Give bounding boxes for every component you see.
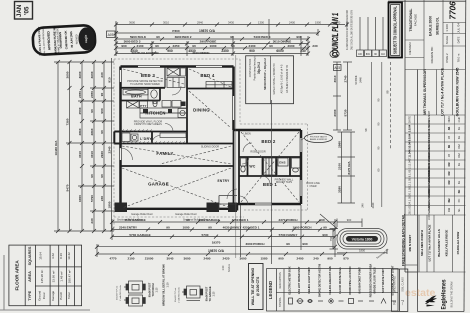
top dimension strip xyxy=(116,19,347,56)
floor area table xyxy=(9,245,82,306)
small note texts in plan xyxy=(117,80,294,222)
left dim numbers xyxy=(54,71,112,223)
title block mid band (70-115) xyxy=(405,70,466,116)
detail captions between xyxy=(162,264,170,306)
internal walls xyxy=(121,67,302,205)
council plan notes xyxy=(345,10,354,50)
eagle homes logo xyxy=(425,279,454,309)
kitchen appliances dark marks xyxy=(143,102,186,114)
laundry bump-out wall xyxy=(114,132,120,144)
freestanding bath detail xyxy=(337,229,387,250)
wc fixture near bath xyxy=(153,101,157,107)
robe column between bed3 and bed4 xyxy=(164,67,166,88)
bottom sheet edge xyxy=(3,255,5,310)
title block client band (215-272) xyxy=(405,215,466,272)
top dim numbers xyxy=(121,20,340,55)
wind rating box xyxy=(392,269,408,311)
eaves dashed outline xyxy=(114,59,308,231)
robe hatch (right wing) xyxy=(241,158,301,175)
entry porch lines xyxy=(219,189,237,210)
title block top band grid xyxy=(405,0,466,70)
right margin reference lines xyxy=(371,62,390,207)
certification badge stamp xyxy=(32,23,95,56)
bottom dimension strip xyxy=(97,205,345,257)
subject to council approval stamp xyxy=(389,3,403,58)
post detail A (double) xyxy=(124,281,145,306)
date stamp box top-left xyxy=(15,2,33,20)
right vertical dim chains xyxy=(333,62,355,203)
laundry fixtures xyxy=(122,133,186,142)
room labels xyxy=(131,73,286,187)
title block frame xyxy=(388,0,466,312)
selection leader lines with tag boxes xyxy=(357,17,387,57)
ensuite vanity callout oval xyxy=(301,133,333,142)
concentric circles mark xyxy=(330,50,339,57)
kitchen bench + pantry xyxy=(140,89,188,119)
left dim ticks xyxy=(56,60,106,233)
specification notes box xyxy=(246,55,294,104)
door swing arcs xyxy=(121,86,271,205)
left dimension strip xyxy=(54,58,114,231)
legend symbols row xyxy=(289,298,397,304)
exterior walls xyxy=(121,67,302,211)
legend table xyxy=(267,269,399,311)
wall tie note box xyxy=(249,264,264,310)
eagle bird silhouette xyxy=(425,296,437,305)
A05 window tag box xyxy=(107,31,116,38)
top dim ticks xyxy=(114,23,349,56)
title block top band texts xyxy=(408,1,461,63)
A05 tag right xyxy=(334,65,342,71)
right side notes xyxy=(306,182,320,188)
window openings (light gaps) xyxy=(121,67,302,205)
bed4 robe cells xyxy=(206,82,232,89)
post detail B (single) xyxy=(182,286,203,301)
title block revision table (115-215) xyxy=(405,115,466,215)
long section line xyxy=(271,100,273,264)
wall hatch smudges xyxy=(121,130,185,144)
garage front wall with piers xyxy=(115,203,238,216)
bath room fixtures xyxy=(123,89,148,108)
dashed ceiling diagonals xyxy=(122,69,299,208)
